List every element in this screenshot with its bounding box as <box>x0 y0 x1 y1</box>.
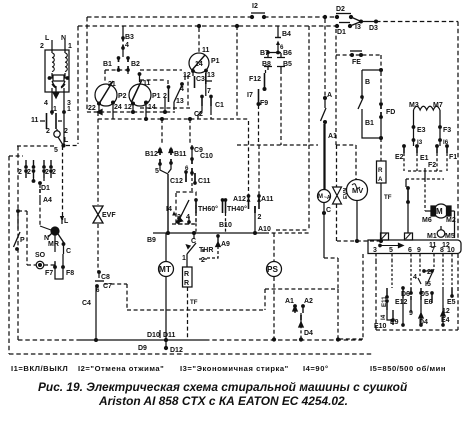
frame top dashed line 2 <box>78 25 336 27</box>
heater F7 F8 <box>55 254 63 279</box>
program cam P2 <box>95 84 117 106</box>
legend row <box>11 364 446 373</box>
branch A1 to MV <box>336 144 356 146</box>
contact D1 <box>39 183 41 201</box>
svg-text:24: 24 <box>114 104 122 111</box>
svg-text:A: A <box>327 92 332 99</box>
svg-text:E3: E3 <box>417 127 426 134</box>
svg-text:6: 6 <box>96 287 100 294</box>
svg-text:C11: C11 <box>198 178 211 185</box>
svg-text:D10: D10 <box>147 332 160 339</box>
svg-text:M1: M1 <box>427 233 437 240</box>
dashed link M~A to box <box>324 257 338 259</box>
contact F12 <box>264 73 266 88</box>
svg-text:E2: E2 <box>395 154 404 161</box>
svg-text:M: M <box>436 207 443 216</box>
svg-text:B1: B1 <box>103 61 112 68</box>
frame bottom dashed bus <box>9 353 372 355</box>
labels near A <box>327 92 337 140</box>
left box contacts 2-2 <box>9 155 23 157</box>
svg-text:I5: I5 <box>425 281 431 288</box>
svg-text:I2="Отмена отжима": I2="Отмена отжима" <box>78 364 164 373</box>
svg-text:D12: D12 <box>170 347 183 354</box>
svg-text:B: B <box>365 79 370 86</box>
svg-text:2: 2 <box>177 214 181 221</box>
vertical dashed to bus <box>362 254 364 339</box>
svg-text:I1=ВКЛ/ВЫКЛ: I1=ВКЛ/ВЫКЛ <box>11 364 68 373</box>
svg-text:F9: F9 <box>260 100 268 107</box>
svg-text:D3: D3 <box>369 25 378 32</box>
svg-text:I4: I4 <box>166 206 172 213</box>
svg-text:2: 2 <box>201 257 205 264</box>
block internal link <box>380 245 403 247</box>
svg-text:EVF: EVF <box>102 212 116 219</box>
inductor coil right <box>65 53 67 71</box>
bus y241 <box>337 240 381 242</box>
resistor R A <box>377 161 387 183</box>
labels near C <box>138 238 230 354</box>
svg-text:F2: F2 <box>428 162 436 169</box>
wire L input <box>51 40 53 53</box>
svg-text:F12: F12 <box>249 76 261 83</box>
contact C1 <box>210 95 212 97</box>
labels near B3 <box>103 34 140 68</box>
labels near B4 <box>247 31 292 107</box>
svg-text:14: 14 <box>195 61 203 68</box>
svg-text:B10: B10 <box>219 222 232 229</box>
svg-text:B5: B5 <box>283 61 292 68</box>
svg-text:4: 4 <box>413 274 417 281</box>
svg-text:2: 2 <box>163 93 167 100</box>
contact A9 <box>217 235 219 237</box>
labels near I2 <box>252 3 378 36</box>
svg-text:E10: E10 <box>374 323 387 330</box>
frame right dashed vertical <box>457 22 459 239</box>
svg-text:Ariston AI 858 CTX с КА EATON: Ariston AI 858 CTX с КА EATON ЕС 4254.02… <box>98 394 348 408</box>
resistor R <box>183 267 193 287</box>
svg-text:A10: A10 <box>258 226 271 233</box>
svg-text:TF: TF <box>384 194 392 201</box>
labels near 11 <box>176 47 224 118</box>
svg-text:F1: F1 <box>449 154 457 161</box>
svg-text:B8: B8 <box>262 61 271 68</box>
switch I1 <box>40 120 62 122</box>
labels near 11 <box>31 117 69 154</box>
switch 4-13 <box>184 74 186 80</box>
valve EVN <box>333 187 342 204</box>
svg-text:P2: P2 <box>118 93 127 100</box>
svg-text:TH40°: TH40° <box>227 205 247 213</box>
svg-text:B9: B9 <box>147 237 156 244</box>
wire N input <box>64 40 66 53</box>
svg-text:I3: I3 <box>417 139 423 146</box>
svg-text:C2: C2 <box>194 111 203 118</box>
contact D2 <box>336 13 351 15</box>
svg-text:D4: D4 <box>419 319 428 326</box>
svg-text:4: 4 <box>180 86 184 93</box>
svg-text:R: R <box>378 167 383 174</box>
svg-text:A4: A4 <box>43 197 52 204</box>
svg-text:P: P <box>20 237 25 244</box>
svg-text:I6: I6 <box>443 139 449 146</box>
dashed bus y145 <box>237 144 318 146</box>
svg-text:A9: A9 <box>221 241 230 248</box>
svg-text:3: 3 <box>373 247 377 254</box>
svg-text:13: 13 <box>207 72 215 79</box>
node D12 <box>165 347 168 350</box>
mains input filter box <box>45 50 69 92</box>
svg-text:11: 11 <box>31 117 39 124</box>
motor MT <box>165 233 167 262</box>
inductor coil left <box>52 53 54 71</box>
pressure switch PS <box>273 233 275 262</box>
svg-text:4: 4 <box>186 214 190 221</box>
dashed box A1 A2 <box>265 288 338 290</box>
contact I7-F9 <box>258 89 260 102</box>
connector block <box>368 240 461 254</box>
labels near 21 <box>88 80 167 112</box>
svg-text:E1: E1 <box>420 155 429 162</box>
svg-text:5: 5 <box>389 247 393 254</box>
svg-text:L: L <box>45 35 50 42</box>
svg-text:1: 1 <box>182 255 186 262</box>
svg-text:2: 2 <box>258 214 262 221</box>
labels near 3 <box>373 242 455 254</box>
svg-text:C8: C8 <box>101 274 110 281</box>
labels near A1 <box>267 265 313 337</box>
frame left verticals <box>9 146 18 354</box>
svg-text:E5: E5 <box>447 299 456 306</box>
svg-text:F7: F7 <box>45 270 53 277</box>
box FE <box>336 29 381 145</box>
svg-text:22: 22 <box>88 105 96 112</box>
svg-text:C12: C12 <box>170 178 183 185</box>
relay MR <box>61 218 63 224</box>
switch IP <box>17 210 20 213</box>
contact FD <box>380 72 382 102</box>
svg-text:4: 4 <box>44 100 48 107</box>
labels near M3 <box>395 102 457 240</box>
svg-text:12: 12 <box>442 308 450 315</box>
contact C2 <box>201 95 203 97</box>
svg-text:THR: THR <box>199 247 213 254</box>
contacts C9 C10 <box>191 145 193 159</box>
svg-text:C3: C3 <box>196 76 205 83</box>
svg-text:PS: PS <box>267 265 278 274</box>
svg-text:A1: A1 <box>285 298 294 305</box>
svg-text:L: L <box>64 137 69 144</box>
svg-text:D11: D11 <box>163 332 176 339</box>
svg-text:EVN: EVN <box>343 188 349 199</box>
bus B9 <box>153 232 265 234</box>
svg-text:1: 1 <box>67 106 71 113</box>
node I2 junction <box>324 16 327 19</box>
svg-text:5: 5 <box>54 147 58 154</box>
program cam P1 upper <box>198 28 200 53</box>
svg-text:I5=850/500 об/мин: I5=850/500 об/мин <box>370 364 446 373</box>
svg-text:6: 6 <box>185 165 189 172</box>
block pin stubs <box>376 254 452 260</box>
switch I5 <box>433 260 435 268</box>
svg-text:~A: ~A <box>324 195 331 201</box>
svg-text:E12: E12 <box>395 299 408 306</box>
SO circle <box>36 261 44 269</box>
program cam P1 <box>129 84 151 106</box>
svg-text:I3: I3 <box>355 24 361 31</box>
svg-text:M7: M7 <box>433 102 443 109</box>
wire horizontal y340 <box>18 339 80 341</box>
dashed box bottom right <box>376 254 458 330</box>
contact FE <box>350 50 362 52</box>
labels near P <box>20 218 74 277</box>
wire A4 down to MR <box>39 201 41 226</box>
svg-text:7: 7 <box>207 88 211 95</box>
svg-text:C1: C1 <box>215 102 224 109</box>
connector M1 M5 <box>437 230 445 238</box>
switch A <box>324 19 326 96</box>
svg-text:TF: TF <box>190 299 198 306</box>
svg-text:M: M <box>318 194 323 200</box>
labels near B12 <box>145 147 274 244</box>
svg-text:I4=90°: I4=90° <box>303 364 329 373</box>
svg-text:2: 2 <box>18 169 22 176</box>
bus y112 <box>87 111 175 113</box>
svg-text:I2: I2 <box>252 3 258 10</box>
svg-text:E4: E4 <box>441 317 450 324</box>
svg-text:B12: B12 <box>145 151 158 158</box>
contacts C12 C11 <box>185 171 187 173</box>
svg-text:P1: P1 <box>211 58 220 65</box>
dashed y179 <box>406 178 444 180</box>
svg-text:2: 2 <box>52 169 56 176</box>
contacts A12 A11 <box>249 121 260 195</box>
wire C4 <box>95 287 97 340</box>
contact B4 cluster <box>277 26 279 37</box>
wire to R A box <box>380 138 382 161</box>
svg-text:D1: D1 <box>41 185 50 192</box>
svg-text:D5: D5 <box>420 291 429 298</box>
svg-text:M3: M3 <box>409 102 419 109</box>
contact C8 C7 <box>98 271 101 274</box>
svg-text:I7: I7 <box>247 92 253 99</box>
filter output pins <box>52 88 64 113</box>
svg-text:M2: M2 <box>446 217 456 224</box>
svg-text:TH60°: TH60° <box>198 205 218 213</box>
motor M~A <box>318 190 331 203</box>
svg-text:SO: SO <box>35 252 46 259</box>
contacts B12 B11 <box>159 149 161 151</box>
svg-text:N: N <box>61 35 66 42</box>
svg-text:M6: M6 <box>422 217 432 224</box>
svg-text:D9: D9 <box>138 345 147 352</box>
svg-text:D4: D4 <box>304 330 313 337</box>
svg-text:R: R <box>184 271 189 278</box>
svg-text:2: 2 <box>427 269 431 276</box>
node L connector circle <box>56 129 58 131</box>
labels near L <box>40 35 72 113</box>
contact 2 (of P1) <box>167 86 169 88</box>
svg-text:4: 4 <box>125 42 129 49</box>
svg-text:1: 1 <box>53 106 57 113</box>
svg-text:B7: B7 <box>260 50 269 57</box>
svg-text:C: C <box>191 238 196 245</box>
wire 7 <box>205 84 207 96</box>
node 5 dashed wires <box>17 145 56 147</box>
wire C7 branch <box>104 283 127 285</box>
svg-text:A2: A2 <box>304 298 313 305</box>
svg-text:6: 6 <box>408 247 412 254</box>
svg-text:1: 1 <box>68 43 72 50</box>
svg-text:C7: C7 <box>103 283 112 290</box>
motor MV <box>347 180 368 201</box>
svg-text:12: 12 <box>442 242 450 249</box>
svg-text:D1: D1 <box>337 29 346 36</box>
svg-text:R: R <box>184 280 189 287</box>
contact D1 <box>336 25 339 28</box>
bus y119 <box>98 118 248 120</box>
svg-text:11: 11 <box>143 80 151 87</box>
svg-text:11: 11 <box>429 242 437 249</box>
svg-text:I3="Экономичная стирка": I3="Экономичная стирка" <box>180 364 289 373</box>
ground arrow <box>52 81 65 88</box>
svg-text:12: 12 <box>183 72 191 79</box>
svg-text:11: 11 <box>202 47 210 54</box>
contact B3 <box>122 26 124 57</box>
svg-text:2: 2 <box>40 43 44 50</box>
contact E <box>407 187 410 190</box>
labels near EVF <box>82 212 116 307</box>
svg-text:2: 2 <box>46 128 50 135</box>
svg-text:E11: E11 <box>381 296 388 307</box>
svg-text:D2: D2 <box>336 6 345 13</box>
svg-text:L: L <box>64 218 69 225</box>
svg-text:P1: P1 <box>152 93 161 100</box>
dashed box around P1 contacts <box>140 70 190 108</box>
motor M pump <box>424 179 426 211</box>
labels near 2 <box>18 169 56 204</box>
labels near E11 <box>374 269 456 330</box>
valve EVF column <box>97 112 99 205</box>
thermostat TH60 TH40 <box>196 200 226 213</box>
svg-text:C10: C10 <box>200 153 213 160</box>
svg-text:2: 2 <box>45 169 49 176</box>
contact C3 <box>192 72 194 76</box>
svg-text:9: 9 <box>409 310 413 317</box>
svg-text:FD: FD <box>386 109 395 116</box>
svg-text:A12: A12 <box>233 196 246 203</box>
labels near FE <box>318 59 395 214</box>
svg-text:F3: F3 <box>443 127 451 134</box>
svg-text:MT: MT <box>159 265 171 274</box>
svg-text:F8: F8 <box>66 270 74 277</box>
connector squares <box>381 233 389 240</box>
svg-text:5: 5 <box>155 168 159 175</box>
wire D4 <box>300 320 302 339</box>
svg-text:21: 21 <box>108 81 116 88</box>
svg-text:E9: E9 <box>390 319 399 326</box>
contacts E11 group <box>392 260 452 288</box>
svg-text:C: C <box>66 248 71 255</box>
svg-text:A11: A11 <box>261 196 274 203</box>
svg-text:B6: B6 <box>283 50 292 57</box>
svg-text:B3: B3 <box>125 34 134 41</box>
frame left column verticals <box>78 17 87 144</box>
frame top dashed line 1 <box>87 16 336 18</box>
svg-text:9: 9 <box>417 247 421 254</box>
svg-text:D6: D6 <box>401 291 410 298</box>
svg-text:A: A <box>378 176 383 183</box>
thermal switch THR <box>193 233 195 239</box>
svg-text:2: 2 <box>27 169 31 176</box>
switch I2 <box>251 12 265 14</box>
svg-text:13: 13 <box>176 98 184 105</box>
svg-text:FE: FE <box>352 59 361 66</box>
svg-text:E6: E6 <box>424 299 433 306</box>
capacitor block <box>53 75 64 81</box>
svg-text:B11: B11 <box>174 151 187 158</box>
heater element M3 M7 <box>414 106 440 110</box>
svg-text:Рис. 19. Электрическая схема с: Рис. 19. Электрическая схема стиральной … <box>38 380 408 394</box>
wire TF down <box>187 287 189 340</box>
dashed verticals center <box>236 26 238 119</box>
svg-text:B4: B4 <box>282 31 291 38</box>
branch to SO <box>18 210 27 212</box>
contacts B1 B2 <box>119 58 129 70</box>
svg-text:12: 12 <box>124 104 132 111</box>
dashed link to P2 <box>105 70 129 83</box>
svg-text:B2: B2 <box>131 61 140 68</box>
svg-text:B1: B1 <box>365 120 374 127</box>
contacts A1 A2 <box>294 305 297 308</box>
svg-text:MV: MV <box>352 186 363 195</box>
svg-text:2: 2 <box>64 128 68 135</box>
switch B B1 <box>362 69 381 71</box>
svg-text:M5: M5 <box>445 233 455 240</box>
svg-text:C: C <box>326 207 331 214</box>
svg-text:MR: MR <box>48 241 59 248</box>
svg-text:I4: I4 <box>380 314 387 320</box>
svg-text:C4: C4 <box>82 300 91 307</box>
switch I4 box <box>176 192 196 224</box>
contact row E2 E1 F2 F1 <box>403 145 406 148</box>
